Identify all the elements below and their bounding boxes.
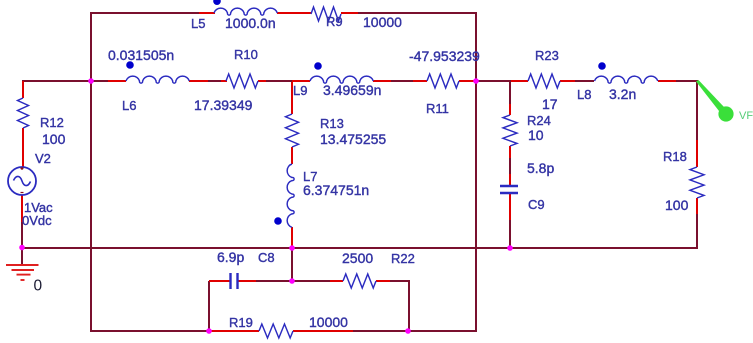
svg-text:3.49659n: 3.49659n [323, 82, 381, 98]
svg-text:17.39349: 17.39349 [194, 97, 253, 113]
svg-text:1000.0n: 1000.0n [225, 15, 276, 31]
svg-text:V2: V2 [35, 151, 51, 166]
svg-text:R19: R19 [229, 315, 253, 330]
svg-text:100: 100 [665, 197, 689, 213]
svg-text:VF: VF [739, 110, 753, 122]
svg-text:10000: 10000 [309, 314, 348, 330]
svg-text:13.475255: 13.475255 [320, 131, 386, 147]
svg-text:L9: L9 [293, 83, 307, 98]
svg-text:L5: L5 [191, 16, 205, 31]
svg-text:-47.953239: -47.953239 [409, 48, 480, 64]
svg-text:R24: R24 [527, 113, 551, 128]
svg-text:2500: 2500 [342, 250, 373, 266]
svg-text:R10: R10 [234, 47, 258, 62]
svg-text:L8: L8 [577, 87, 591, 102]
svg-text:10000: 10000 [363, 14, 402, 30]
svg-text:100: 100 [42, 131, 66, 147]
svg-text:L6: L6 [122, 98, 136, 113]
svg-text:3.2n: 3.2n [609, 86, 636, 102]
svg-text:6.374751n: 6.374751n [303, 182, 369, 198]
svg-text:0.031505n: 0.031505n [108, 47, 174, 63]
svg-text:R23: R23 [535, 48, 559, 63]
svg-text:17: 17 [542, 96, 558, 112]
svg-text:10: 10 [528, 127, 544, 143]
svg-text:R12: R12 [40, 115, 64, 130]
svg-text:R22: R22 [391, 251, 415, 266]
svg-text:0Vdc: 0Vdc [22, 213, 52, 228]
svg-text:R9: R9 [326, 14, 343, 29]
svg-text:C8: C8 [258, 250, 275, 265]
svg-text:6.9p: 6.9p [217, 249, 244, 265]
svg-text:R13: R13 [320, 116, 344, 131]
svg-text:0: 0 [34, 278, 43, 295]
svg-text:5.8p: 5.8p [527, 160, 554, 176]
svg-text:C9: C9 [528, 197, 545, 212]
svg-text:R18: R18 [663, 149, 687, 164]
svg-text:R11: R11 [426, 101, 449, 116]
